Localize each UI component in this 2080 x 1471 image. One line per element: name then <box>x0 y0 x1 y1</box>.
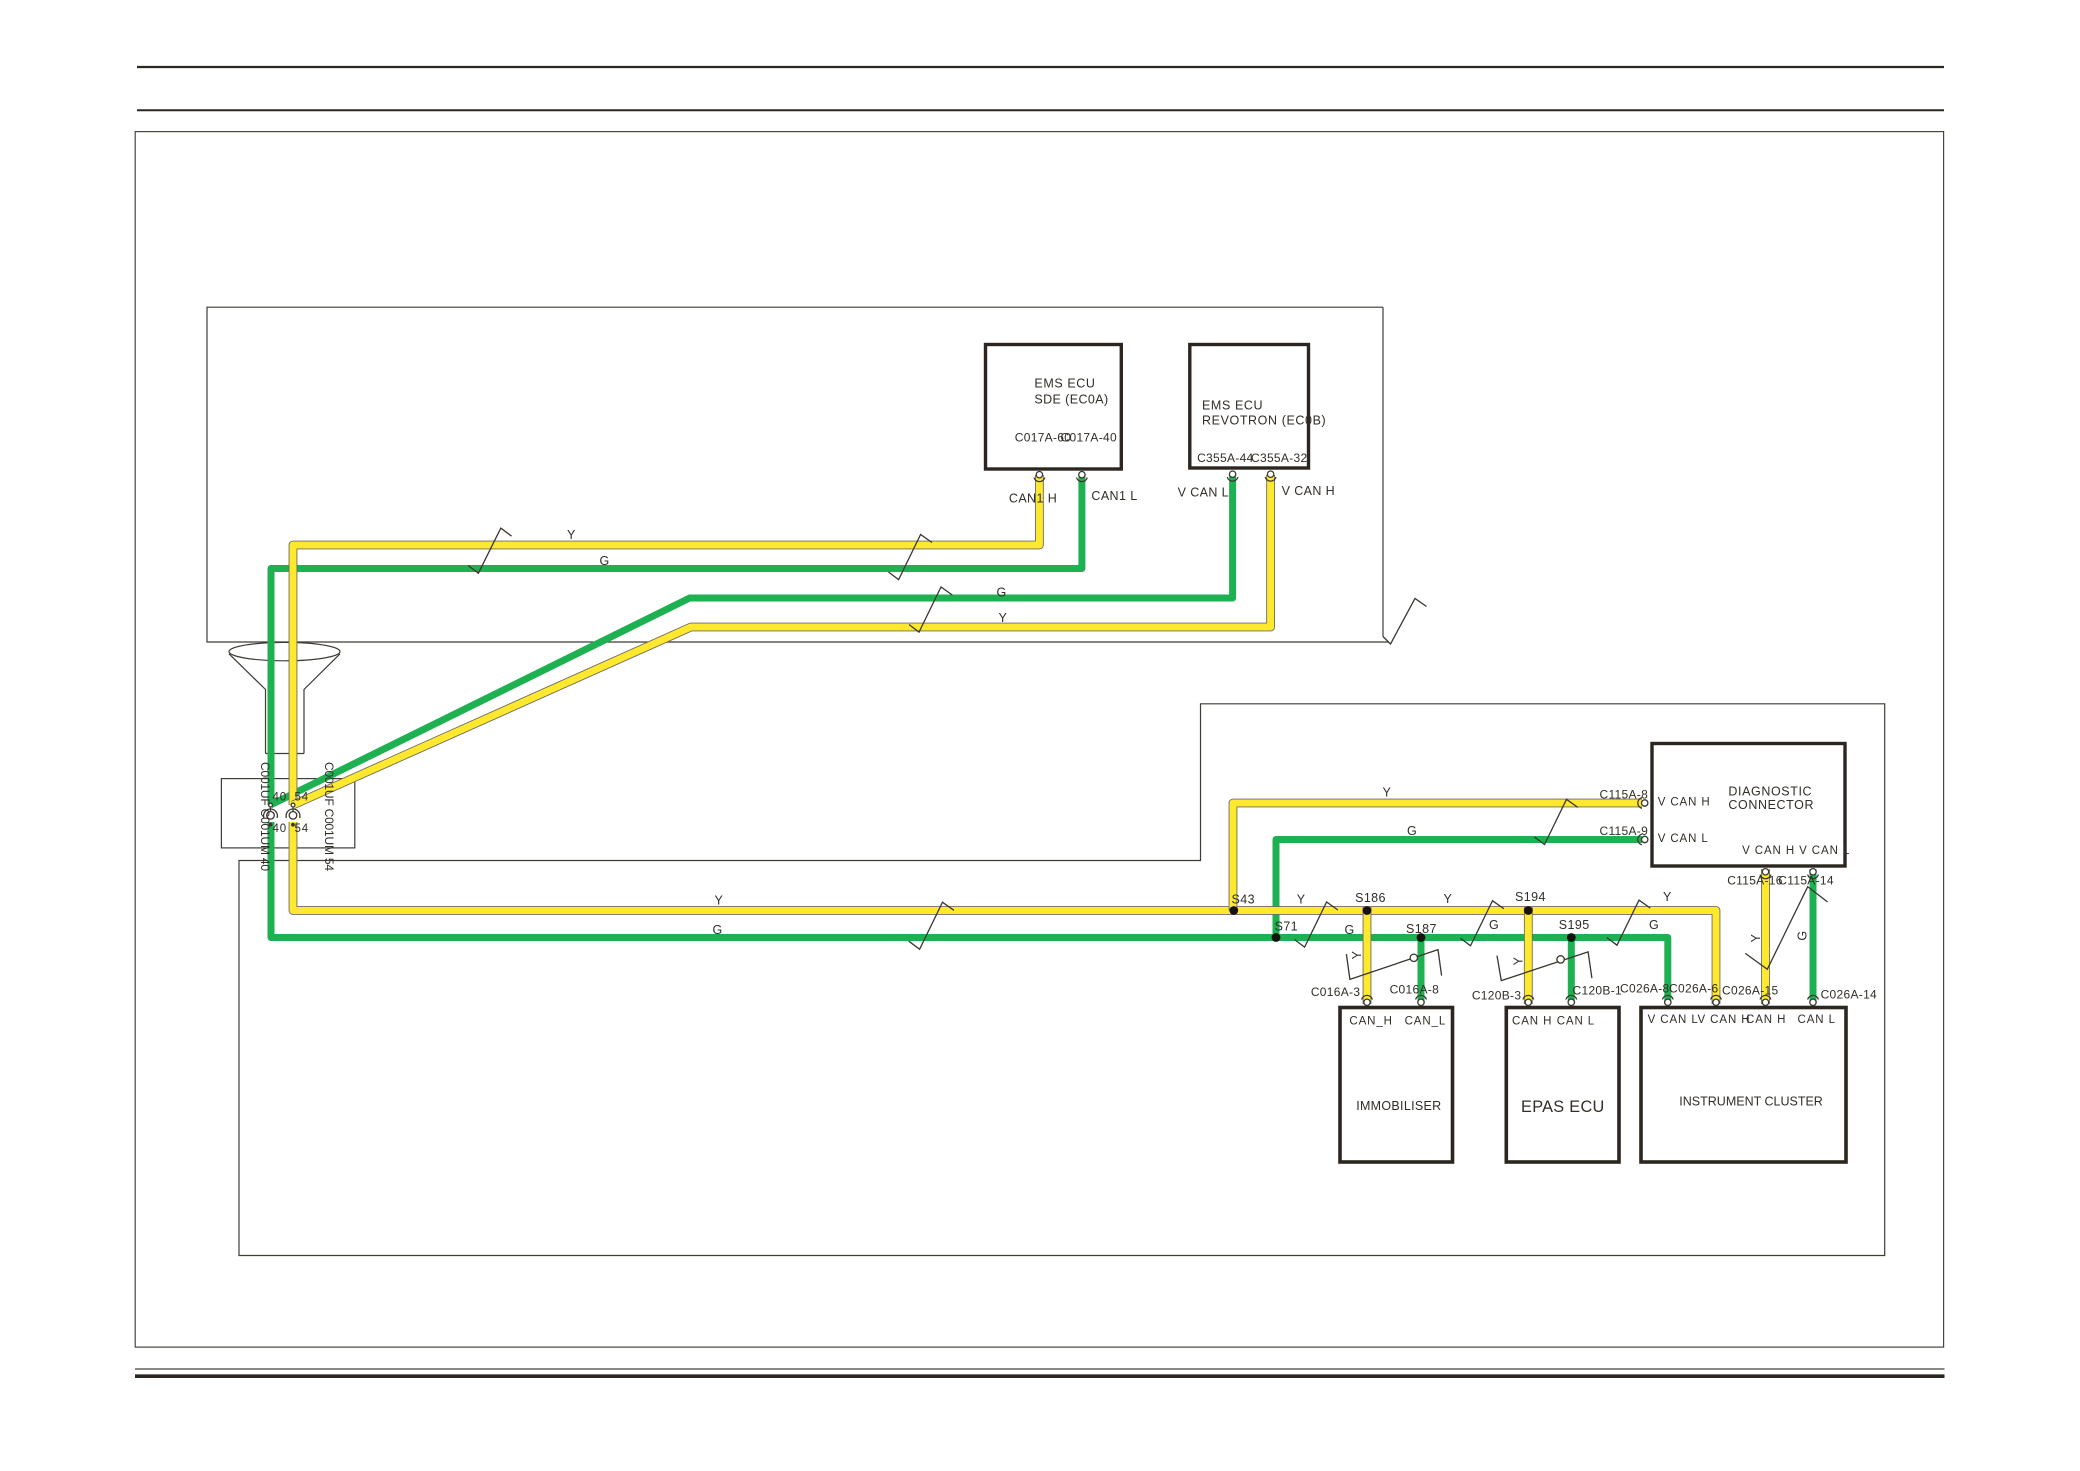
wire V CAN L green from EMS REVOTRON to C001-40 (diagonal) <box>271 474 1233 805</box>
svg-text:C026A-14: C026A-14 <box>1821 988 1877 1002</box>
svg-text:CAN H: CAN H <box>1512 1015 1552 1027</box>
svg-text:DIAGNOSTIC: DIAGNOSTIC <box>1728 785 1812 799</box>
pin C026A-14 at instrument cluster <box>1808 995 1819 1005</box>
svg-text:C001UF C001UM 54: C001UF C001UM 54 <box>322 762 336 871</box>
svg-text:CAN_L: CAN_L <box>1405 1015 1447 1027</box>
svg-text:EMS ECU: EMS ECU <box>1202 399 1263 413</box>
pin C120B-1 at EPAS ECU <box>1566 995 1577 1005</box>
connector C001 box <box>221 779 354 848</box>
svg-text:V CAN H: V CAN H <box>1658 797 1711 809</box>
pin C115A-9 at diagnostic connector <box>1638 834 1648 845</box>
page bottom rule thin <box>135 1368 1945 1370</box>
svg-text:C026A-8: C026A-8 <box>1620 981 1669 995</box>
splice S186 <box>1363 906 1372 915</box>
splice S194 <box>1524 906 1533 915</box>
svg-text:40: 40 <box>273 823 287 835</box>
svg-text:40: 40 <box>273 791 287 803</box>
svg-text:C115A-16: C115A-16 <box>1727 874 1783 888</box>
svg-text:CAN L: CAN L <box>1557 1015 1595 1027</box>
EMS ECU REVOTRON (EC0B) box <box>1190 345 1309 469</box>
twist mark on bus pair after S195 <box>1607 900 1650 945</box>
pin C355A-32 at EMS REVOTRON <box>1265 471 1276 481</box>
svg-text:Y: Y <box>715 894 724 908</box>
svg-text:CAN H: CAN H <box>1746 1014 1786 1026</box>
EMS ECU SDE (EC0A) box <box>986 345 1122 470</box>
svg-text:54: 54 <box>295 791 309 803</box>
pin C026A-15 at instrument cluster <box>1760 995 1771 1005</box>
engine harness area box <box>207 307 1388 642</box>
svg-text:G: G <box>1407 824 1417 838</box>
svg-text:C016A-3: C016A-3 <box>1311 985 1360 999</box>
svg-text:C017A-40: C017A-40 <box>1061 430 1117 444</box>
svg-text:G: G <box>600 554 610 568</box>
pin C026A-6 at instrument cluster <box>1711 995 1722 1005</box>
wire yellow drop S194 to C120B-3 <box>1524 907 1533 1004</box>
splice S71 <box>1272 933 1281 942</box>
svg-text:Y: Y <box>1444 892 1453 906</box>
svg-text:V CAN H: V CAN H <box>1282 484 1336 498</box>
DIAGNOSTIC CONNECTOR box <box>1652 744 1845 867</box>
svg-text:CAN L: CAN L <box>1798 1014 1836 1026</box>
svg-text:V CAN H V CAN L: V CAN H V CAN L <box>1742 845 1850 857</box>
svg-text:SDE (EC0A): SDE (EC0A) <box>1034 393 1108 407</box>
svg-text:REVOTRON (EC0B): REVOTRON (EC0B) <box>1202 413 1326 427</box>
svg-text:C115A-8: C115A-8 <box>1600 788 1649 802</box>
svg-text:Y: Y <box>1749 933 1763 942</box>
INSTRUMENT CLUSTER box <box>1641 1008 1846 1163</box>
svg-text:G: G <box>1796 930 1810 940</box>
svg-text:G: G <box>1649 918 1659 932</box>
option bracket over EPAS drops <box>1497 952 1592 981</box>
svg-text:Y: Y <box>1350 950 1364 959</box>
svg-text:S43: S43 <box>1232 893 1255 907</box>
svg-text:C026A-15: C026A-15 <box>1722 983 1778 997</box>
svg-text:V CAN L: V CAN L <box>1648 1014 1699 1026</box>
svg-text:Y: Y <box>999 611 1008 625</box>
twist mark on bus pair before S43 <box>909 902 954 949</box>
grommet funnel <box>229 642 340 753</box>
svg-text:G: G <box>1489 918 1499 932</box>
wire green C115A-14 to C026A-14 <box>1810 869 1817 1004</box>
connector C001 pin 40 mating symbol <box>264 803 278 826</box>
twist mark on bus pair after S71 <box>1295 902 1338 947</box>
svg-text:Y: Y <box>567 528 576 542</box>
svg-text:EPAS ECU: EPAS ECU <box>1521 1098 1605 1116</box>
svg-text:V CAN L: V CAN L <box>1178 485 1229 499</box>
svg-text:C026A-6: C026A-6 <box>1669 981 1718 995</box>
svg-text:C115A-9: C115A-9 <box>1600 824 1649 838</box>
svg-text:EMS ECU: EMS ECU <box>1034 377 1095 391</box>
harness break mark at engine box corner <box>1383 599 1427 645</box>
pin C017A-40 at EMS SDE <box>1077 472 1088 482</box>
svg-text:C120B-3: C120B-3 <box>1472 988 1521 1002</box>
svg-text:Y: Y <box>1383 786 1392 800</box>
pin C016A-8 at immobiliser <box>1416 995 1427 1005</box>
wire green riser S71 to C115A-9 <box>1276 840 1642 938</box>
svg-text:C120B-1: C120B-1 <box>1573 983 1622 997</box>
splice S195 <box>1567 933 1576 942</box>
svg-text:C355A-44: C355A-44 <box>1197 451 1253 465</box>
twist mark on CAN1 pair left <box>468 528 511 573</box>
svg-text:S194: S194 <box>1515 890 1546 904</box>
wire yellow C115A-16 to C026A-15 <box>1761 869 1770 1004</box>
wire CAN1 H yellow from EMS SDE to C001-54 <box>293 475 1039 805</box>
pin C355A-44 at EMS REVOTRON <box>1227 471 1238 481</box>
svg-text:V CAN H: V CAN H <box>1698 1014 1751 1026</box>
pin C115A-14 below diagnostic connector <box>1808 869 1819 879</box>
EPAS ECU box <box>1506 1008 1619 1163</box>
outer border frame <box>135 132 1943 1348</box>
svg-text:Y: Y <box>1663 890 1672 904</box>
twist mark on CAN1 pair right <box>889 535 932 580</box>
svg-text:IMMOBILISER: IMMOBILISER <box>1356 1099 1441 1113</box>
svg-text:Y: Y <box>1512 956 1526 965</box>
svg-text:CAN_H: CAN_H <box>1349 1015 1392 1027</box>
svg-text:S71: S71 <box>1275 920 1298 934</box>
wire yellow riser S43 to C115A-8 <box>1233 803 1642 911</box>
svg-text:S186: S186 <box>1355 891 1386 905</box>
page bottom rule thick <box>135 1374 1945 1378</box>
page top rule upper <box>137 66 1944 68</box>
connector C001 pin 54 mating symbol <box>286 803 300 826</box>
pin C120B-3 at EPAS ECU <box>1523 995 1534 1005</box>
pin C115A-16 below diagnostic connector <box>1760 869 1771 879</box>
svg-text:CAN1 H: CAN1 H <box>1009 492 1057 506</box>
svg-text:Y: Y <box>1297 893 1306 907</box>
svg-text:C115A-14: C115A-14 <box>1778 874 1834 888</box>
twist mark on bus pair after S187 <box>1460 901 1503 946</box>
page top rule lower <box>137 109 1944 111</box>
svg-text:C016A-8: C016A-8 <box>1390 983 1439 997</box>
twist mark on V CAN pair <box>909 587 952 632</box>
svg-text:G: G <box>713 923 723 937</box>
wire yellow bus from C001-54 to C026A-6 with splices <box>293 822 1716 1004</box>
svg-text:C355A-32: C355A-32 <box>1251 451 1307 465</box>
pin C026A-8 at instrument cluster <box>1662 995 1673 1005</box>
cabin harness area box <box>239 704 1885 1256</box>
svg-text:S187: S187 <box>1406 922 1437 936</box>
svg-text:CAN1 L: CAN1 L <box>1091 489 1137 503</box>
wire green bus from C001-40 to C026A-8 with splices <box>271 822 1668 1004</box>
svg-text:V CAN L: V CAN L <box>1658 833 1709 845</box>
wire yellow drop S186 to C016A-3 <box>1363 907 1372 1004</box>
pin C115A-8 at diagnostic connector <box>1638 798 1648 809</box>
IMMOBILISER box <box>1340 1008 1453 1163</box>
svg-text:G: G <box>1345 923 1355 937</box>
wire CAN1 L green from EMS SDE to C001-40 <box>271 474 1082 805</box>
svg-text:S195: S195 <box>1559 918 1590 932</box>
wire V CAN H yellow from EMS REVOTRON to C001-54 (diagonal) <box>293 475 1271 805</box>
svg-text:54: 54 <box>295 823 309 835</box>
twist mark on C115A-16/14 vertical pair <box>1745 887 1827 970</box>
option bracket over immobiliser drops <box>1346 950 1441 980</box>
splice S187 <box>1417 933 1426 942</box>
twist mark on C115A-8/9 pair <box>1534 799 1577 844</box>
svg-text:G: G <box>997 586 1007 600</box>
pin C017A-60 at EMS SDE <box>1034 472 1045 482</box>
pin C016A-3 at immobiliser <box>1362 995 1373 1005</box>
svg-text:CONNECTOR: CONNECTOR <box>1728 798 1814 812</box>
svg-text:INSTRUMENT CLUSTER: INSTRUMENT CLUSTER <box>1679 1095 1823 1109</box>
wire green drop S187 to C016A-8 <box>1418 934 1425 1004</box>
splice S43 <box>1229 906 1238 915</box>
svg-text:C001UF C001UM 40: C001UF C001UM 40 <box>258 762 272 871</box>
wire green drop S195 to C120B-1 <box>1568 934 1575 1004</box>
